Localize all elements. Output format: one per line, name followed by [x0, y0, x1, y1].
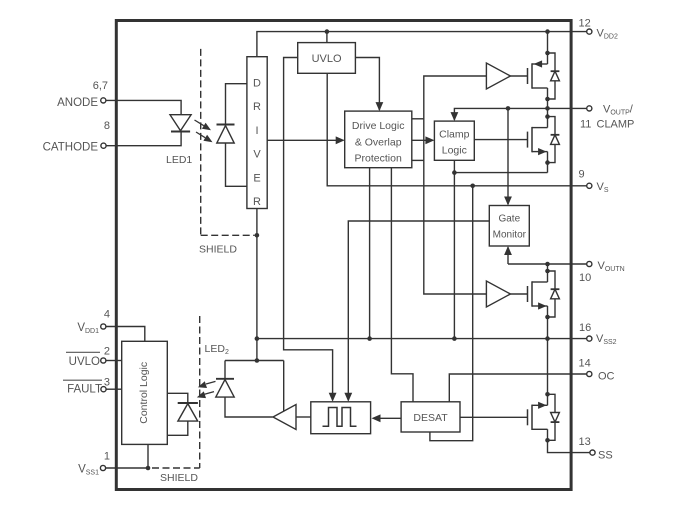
svg-text:13: 13 — [579, 436, 591, 448]
svg-text:16: 16 — [579, 322, 591, 334]
svg-text:& Overlap: & Overlap — [355, 137, 402, 149]
svg-text:CLAMP: CLAMP — [597, 119, 635, 131]
svg-text:ANODE: ANODE — [57, 97, 98, 109]
svg-text:10: 10 — [579, 272, 591, 284]
svg-text:CATHODE: CATHODE — [43, 142, 99, 154]
svg-text:UVLO: UVLO — [312, 53, 342, 65]
svg-text:11: 11 — [580, 119, 591, 131]
svg-text:E: E — [253, 172, 260, 184]
svg-text:Gate: Gate — [498, 214, 520, 225]
svg-text:Drive Logic: Drive Logic — [352, 120, 405, 132]
svg-text:VSS1: VSS1 — [78, 464, 99, 477]
svg-text:8: 8 — [104, 120, 110, 132]
svg-text:Monitor: Monitor — [493, 230, 527, 241]
svg-text:1: 1 — [104, 451, 110, 463]
svg-text:VS: VS — [597, 181, 609, 194]
svg-text:VSS2: VSS2 — [596, 333, 617, 346]
svg-text:R: R — [253, 196, 261, 208]
svg-text:FAULT: FAULT — [67, 384, 102, 396]
svg-text:UVLO: UVLO — [69, 356, 100, 368]
svg-text:V: V — [253, 149, 261, 161]
svg-text:OC: OC — [598, 371, 615, 383]
svg-text:Protection: Protection — [355, 153, 402, 165]
svg-text:LED1: LED1 — [166, 154, 192, 166]
svg-text:6,7: 6,7 — [93, 80, 108, 92]
svg-text:3: 3 — [104, 377, 110, 389]
svg-text:VDD1: VDD1 — [77, 322, 99, 335]
svg-text:SHIELD: SHIELD — [160, 472, 198, 484]
svg-text:SHIELD: SHIELD — [199, 244, 237, 256]
svg-text:D: D — [253, 78, 261, 90]
svg-text:VOUTN: VOUTN — [598, 260, 625, 273]
svg-text:9: 9 — [579, 169, 585, 181]
svg-text:Clamp: Clamp — [439, 129, 470, 141]
svg-text:12: 12 — [579, 18, 591, 30]
svg-text:R: R — [253, 101, 261, 113]
svg-text:I: I — [255, 125, 258, 137]
svg-text:Logic: Logic — [442, 145, 467, 157]
svg-text:VDD2: VDD2 — [597, 28, 618, 41]
svg-text:Control Logic: Control Logic — [138, 362, 150, 424]
svg-text:LED2: LED2 — [205, 343, 229, 356]
svg-text:14: 14 — [579, 358, 591, 370]
svg-text:VOUTP/: VOUTP/ — [603, 104, 634, 117]
svg-text:SS: SS — [598, 450, 613, 462]
svg-text:4: 4 — [104, 309, 110, 321]
svg-text:2: 2 — [104, 346, 110, 358]
svg-text:DESAT: DESAT — [413, 412, 448, 424]
